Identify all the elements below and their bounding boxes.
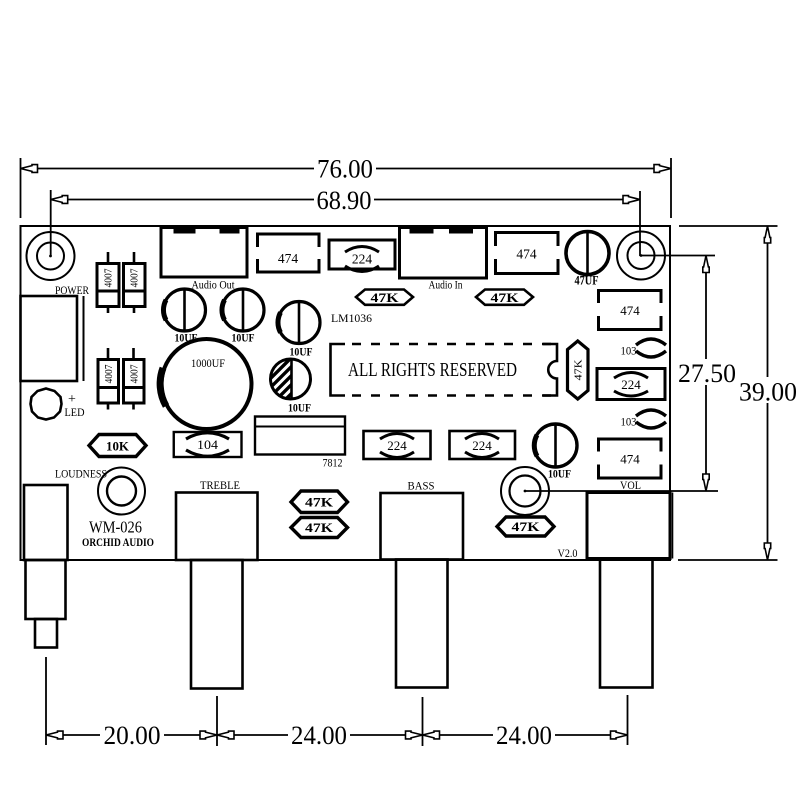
diode D1 4007: [107, 252, 110, 264]
svg-text:10UF: 10UF: [290, 345, 313, 359]
resistor 10K: [89, 435, 146, 457]
svg-text:4007: 4007: [129, 364, 141, 383]
svg-text:47K: 47K: [512, 519, 541, 534]
svg-text:474: 474: [620, 452, 640, 467]
extension line from top-right hole center: [641, 255, 715, 257]
capacitor 10UF bottom-right: [534, 424, 577, 467]
DIMS-RIGHT: [525, 226, 799, 560]
arrow at vol: [611, 731, 628, 739]
svg-text:474: 474: [516, 247, 537, 262]
svg-text:47K: 47K: [371, 290, 400, 305]
svg-text:474: 474: [278, 251, 299, 266]
svg-text:24.00: 24.00: [496, 721, 552, 750]
arrow pair at bass: [406, 731, 423, 739]
connector Audio Out: [161, 228, 247, 278]
svg-text:10UF: 10UF: [288, 401, 311, 415]
center line loudness: [45, 657, 47, 745]
dim 76.00 extension line left: [20, 158, 22, 218]
DIMS-TOP: [21, 155, 672, 257]
dim 39.00 line: [767, 226, 769, 560]
svg-text:76.00: 76.00: [317, 155, 373, 184]
svg-text:24.00: 24.00: [291, 721, 347, 750]
svg-text:224: 224: [387, 438, 407, 453]
svg-text:104: 104: [197, 438, 219, 452]
mounting hole top-left: [27, 232, 75, 280]
DIMS-BOTTOM: [46, 657, 628, 750]
capacitor 474 top-left: [258, 234, 320, 272]
svg-text:4007: 4007: [129, 268, 141, 287]
dim 27.50 line: [705, 256, 707, 492]
svg-text:TREBLE: TREBLE: [200, 478, 240, 492]
svg-text:103: 103: [621, 415, 637, 429]
pot BASS shaft: [396, 560, 448, 688]
svg-text:BASS: BASS: [408, 479, 435, 493]
IC U1 dashed outline: [331, 344, 346, 396]
pot VOL shaft: [600, 559, 653, 688]
capacitor 47UF: [566, 232, 609, 275]
arrow 68.90 right: [623, 196, 640, 204]
svg-text:Audio Out: Audio Out: [192, 280, 236, 292]
jack LOUDNESS sleeve: [26, 560, 66, 619]
capacitor 1000UF: [162, 339, 252, 429]
svg-text:V2.0: V2.0: [558, 548, 578, 560]
pot TREBLE body: [176, 493, 258, 561]
diode D2 4007: [133, 252, 136, 264]
capacitor 10UF c: [278, 302, 320, 344]
capacitor 10UF b: [222, 289, 264, 331]
svg-text:68.90: 68.90: [317, 186, 372, 215]
resistor 47K right: [476, 290, 533, 305]
MIDDLE: [55, 289, 588, 560]
pot BASS body: [381, 493, 464, 560]
svg-text:LM1036: LM1036: [331, 311, 372, 325]
pot LOUDNESS body: [24, 485, 68, 560]
resistor 47K near vol hole: [497, 517, 554, 536]
TOPROW: [161, 227, 609, 325]
svg-text:224: 224: [621, 377, 641, 392]
arrow pair at treble: [200, 731, 217, 739]
center line treble: [216, 696, 218, 746]
center line vol: [627, 695, 629, 745]
dim text 20.00: [100, 721, 164, 747]
arrow 76.00 left: [21, 165, 38, 173]
POTS: [24, 478, 673, 689]
dim text 76.00: [314, 155, 376, 180]
resistor 47K left: [356, 290, 413, 305]
svg-text:LED: LED: [65, 405, 85, 419]
dim text 68.90: [314, 188, 374, 212]
RIGHTCOL: [595, 291, 666, 493]
svg-text:VOL: VOL: [620, 478, 641, 492]
svg-text:4007: 4007: [103, 364, 115, 383]
mounting hole bottom-left (loudness): [98, 468, 145, 515]
svg-text:47K: 47K: [305, 495, 334, 510]
svg-text:47K: 47K: [491, 290, 520, 305]
svg-text:224: 224: [472, 438, 492, 453]
diode D4 4007: [132, 348, 135, 360]
svg-text:10UF: 10UF: [232, 331, 255, 345]
svg-text:4007: 4007: [103, 268, 115, 287]
resistor 47K vertical: [568, 341, 589, 399]
svg-text:LOUDNESS: LOUDNESS: [55, 467, 107, 481]
bottom dim line: [46, 734, 628, 736]
LED: [31, 389, 62, 420]
resistor 47K treble upper: [291, 491, 348, 513]
svg-text:1000UF: 1000UF: [191, 356, 225, 370]
resistor 47K treble lower: [291, 518, 348, 538]
dim 68.90 extension line left: [50, 190, 52, 256]
board outline: [21, 226, 671, 560]
capacitor 224 mid-left: [364, 431, 431, 459]
arrow 68.90 left: [51, 196, 68, 204]
power jack: [21, 296, 78, 381]
svg-text:WM-026: WM-026: [89, 518, 142, 537]
svg-text:20.00: 20.00: [104, 721, 161, 750]
center line bass: [422, 697, 424, 746]
svg-text:10UF: 10UF: [548, 467, 571, 481]
svg-text:10K: 10K: [106, 439, 130, 454]
extension line board bottom right: [678, 559, 778, 561]
capacitor 10UF hatched: [271, 359, 311, 399]
capacitor 224 right: [597, 369, 665, 400]
arrow 39.00 bottom: [764, 543, 770, 560]
capacitor 474 top-right: [496, 233, 559, 274]
svg-text:7812: 7812: [323, 458, 343, 470]
dim text 27.50: [676, 359, 738, 385]
arrow 27.50 top: [703, 256, 709, 273]
arrow 27.50 bottom: [703, 474, 709, 491]
mounting hole bottom-right: [501, 467, 549, 515]
regulator 7812: [255, 417, 345, 455]
capacitor 224 mid-right: [450, 431, 516, 459]
dim 76.00 line: [21, 168, 672, 170]
svg-text:Audio In: Audio In: [429, 280, 463, 292]
pot TREBLE shaft: [191, 560, 243, 689]
extension line from bottom-right hole center: [525, 490, 718, 492]
svg-text:47UF: 47UF: [575, 274, 599, 288]
svg-text:474: 474: [620, 303, 640, 318]
dim 68.90 line: [51, 199, 640, 201]
LEFTCOL: [21, 252, 147, 457]
capacitor 104: [174, 432, 242, 457]
HOLES: [27, 232, 666, 516]
svg-text:ALL RIGHTS RESERVED: ALL RIGHTS RESERVED: [348, 360, 517, 381]
arrow 76.00 right: [654, 165, 671, 173]
svg-text:47K: 47K: [573, 359, 585, 380]
pot VOL body: [587, 493, 670, 559]
extension line board top right: [679, 225, 778, 227]
mounting hole top-right: [617, 232, 665, 280]
dim 68.90 extension line right: [639, 191, 641, 256]
diode D3 4007: [107, 348, 110, 360]
svg-text:103: 103: [621, 344, 637, 358]
arrow at loudness: [46, 731, 63, 739]
dim text 24.00 second: [493, 721, 555, 747]
dim text 24.00 first: [288, 721, 350, 747]
capacitor 474 right-2: [599, 439, 662, 478]
dim 76.00 extension line right: [670, 158, 672, 218]
capacitor 224 top: [329, 240, 395, 269]
svg-text:47K: 47K: [305, 520, 334, 535]
dim text 39.00: [737, 377, 799, 403]
svg-text:ORCHID AUDIO: ORCHID AUDIO: [82, 537, 154, 549]
jack LOUDNESS tip: [35, 619, 57, 648]
svg-text:224: 224: [352, 252, 373, 267]
connector Audio In: [400, 228, 487, 279]
arrow 39.00 top: [764, 226, 770, 243]
svg-text:27.50: 27.50: [678, 359, 736, 388]
svg-text:39.00: 39.00: [739, 378, 797, 407]
capacitor 474 right-1: [599, 291, 662, 330]
capacitor 10UF a: [164, 289, 206, 331]
